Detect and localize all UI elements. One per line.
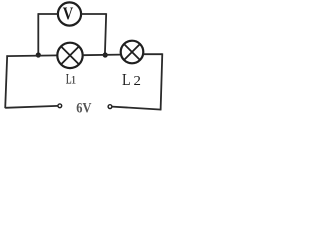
node junction left <box>36 52 41 57</box>
node junction right <box>103 52 108 57</box>
wire bottom left <box>5 106 58 108</box>
svg-text:V: V <box>63 4 74 24</box>
wire bottom right <box>112 107 161 110</box>
battery terminal right <box>108 105 112 109</box>
battery terminal left <box>58 104 62 108</box>
svg-text:2: 2 <box>134 74 141 89</box>
lamp L2 <box>121 41 144 64</box>
wire L1 to L2 <box>83 54 121 57</box>
wire voltmeter right horizontal <box>81 13 105 15</box>
wire left vertical <box>5 55 7 108</box>
wire right vertical <box>161 53 163 110</box>
wire voltmeter left horizontal <box>38 13 58 15</box>
lamp L1 <box>57 43 82 68</box>
svg-text:6V: 6V <box>76 100 92 116</box>
wire voltmeter left vertical <box>37 13 39 55</box>
wire L2 right horizontal <box>143 53 162 55</box>
svg-text:1: 1 <box>71 74 77 86</box>
voltmeter V1 <box>58 2 81 25</box>
svg-text:L: L <box>122 70 131 89</box>
wire top rail left <box>6 54 57 57</box>
wire voltmeter right vertical <box>105 13 106 55</box>
